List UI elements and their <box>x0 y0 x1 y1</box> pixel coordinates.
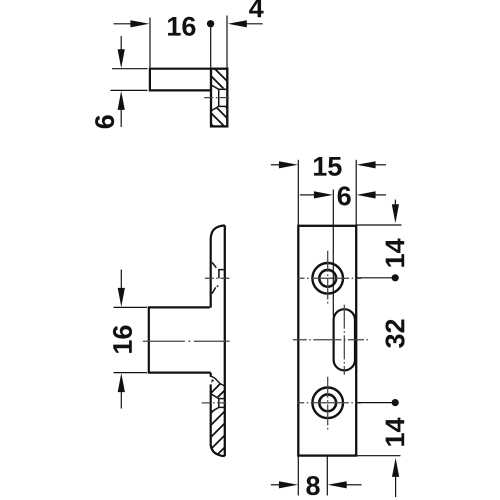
hatching lower patch (side view section) <box>154 390 282 470</box>
centre line slot vertical <box>343 305 345 375</box>
bottom hole bore circle <box>319 394 336 411</box>
chain dot bottom hole <box>392 399 399 406</box>
top hole countersink circle <box>312 263 343 294</box>
dimension text 16 (rotated, side view) <box>113 326 132 353</box>
extension line slot left edge up <box>332 190 334 317</box>
top hole cylinder corner (side view) <box>219 270 224 279</box>
tongue outline (side view) <box>149 307 211 372</box>
extension line bottom hole centre to dot <box>356 402 392 404</box>
centre line slot horizontal <box>293 339 368 341</box>
dimension text 6 (rotated) <box>95 115 114 128</box>
dimension 8 <box>271 484 280 486</box>
bottom hole cylinder lower edge <box>219 406 224 408</box>
extension line plate top to right <box>356 224 401 226</box>
flange plate outline (top view, sectioned) <box>211 69 227 127</box>
centre line top hole horizontal <box>298 277 362 279</box>
hatching lower zone (top view) <box>177 90 259 140</box>
slot (stadium) <box>334 309 355 370</box>
plate front edge lower segment <box>210 384 212 445</box>
plate back edge (side view) <box>224 225 226 456</box>
top hole cone edge lower (side view) <box>212 287 216 293</box>
bottom hole cone lower edge (side view) <box>212 407 219 411</box>
centre line bottom hole vertical <box>327 377 329 430</box>
dimension 4 arrow <box>228 20 247 27</box>
chain top arrow (down) <box>394 200 396 206</box>
dimension 15 <box>271 164 280 166</box>
bottom hole cylinder wall <box>218 399 220 408</box>
dimension text 15 <box>314 157 342 176</box>
chain bottom arrow (up) <box>392 458 399 477</box>
dimension 6 upper arrow <box>120 36 122 50</box>
dimension text 8 <box>306 476 319 495</box>
bottom hole cone upper edge (side view) <box>212 394 219 398</box>
top hole cone edge upper (side view) <box>212 262 216 267</box>
dimension 16 left arrow <box>114 23 132 25</box>
dimension text 6 (front view) <box>338 186 351 205</box>
countersink cone upper edge <box>212 85 219 89</box>
dimension 6 (front view) <box>300 194 315 196</box>
bottom hole countersink circle <box>312 388 343 419</box>
dimension text 4 <box>249 0 263 17</box>
plate front edge upper segment <box>210 240 212 308</box>
hatching upper zone (top view) <box>179 55 297 140</box>
centre line bottom hole horizontal <box>297 402 361 404</box>
extension line plate right edge up <box>355 160 357 226</box>
break line (freehand) <box>210 376 224 386</box>
dimension text 32 (rotated) <box>385 320 404 348</box>
extension line top hole centre to dot <box>356 277 392 279</box>
countersink cone lower edge <box>212 106 219 110</box>
extension line plate left edge up <box>297 160 299 226</box>
dimension text 16 <box>168 17 195 36</box>
chain dot top hole <box>392 274 399 281</box>
top hole lower corner dot <box>217 285 219 287</box>
extension line flange front face <box>210 28 212 69</box>
dimension 16 top arrow (side view) <box>120 270 122 289</box>
plate top taper arc <box>211 225 225 239</box>
plate bottom taper arc <box>211 445 225 456</box>
hatching upper patch (side view section) <box>183 360 255 410</box>
extension line left edge of tongue <box>149 18 151 68</box>
plate front edge below tongue <box>210 373 212 377</box>
hole cylinder upper edge <box>219 88 227 90</box>
top hole bore circle <box>319 270 336 287</box>
tongue outline (top view) <box>150 69 211 91</box>
centre line of hole (top view) <box>204 97 231 99</box>
extension line tongue top (for 6) <box>112 68 148 70</box>
centre line top hole (side view) <box>205 277 231 279</box>
dimension 6 lower arrow <box>118 91 125 110</box>
hole cylinder lower edge <box>219 105 227 107</box>
centre line top hole vertical <box>327 251 329 306</box>
extension line tongue bottom (16) <box>114 372 148 374</box>
dimension text 14 bottom (rotated) <box>386 418 405 446</box>
dimension text 14 top (rotated) <box>386 239 405 267</box>
hole cylinder wall <box>218 89 220 106</box>
extension line flange back face <box>226 16 228 69</box>
extension line hole centre down (8) <box>326 456 328 496</box>
extension line tongue bottom (for 6) <box>111 89 148 91</box>
extension line tongue top (16) <box>114 306 148 308</box>
dimension 16 bottom arrow (side view) <box>118 373 125 392</box>
dimension 16 dot termination <box>207 20 214 27</box>
extension line plate left edge down (8) <box>297 456 299 496</box>
extension line plate bottom to right <box>356 455 400 457</box>
bottom hole cylinder upper edge <box>219 398 224 400</box>
centre line bottom hole (side view) <box>202 402 228 404</box>
plate outline (front view) <box>298 226 356 456</box>
centre line through tongue / slot (side view) <box>143 340 230 342</box>
